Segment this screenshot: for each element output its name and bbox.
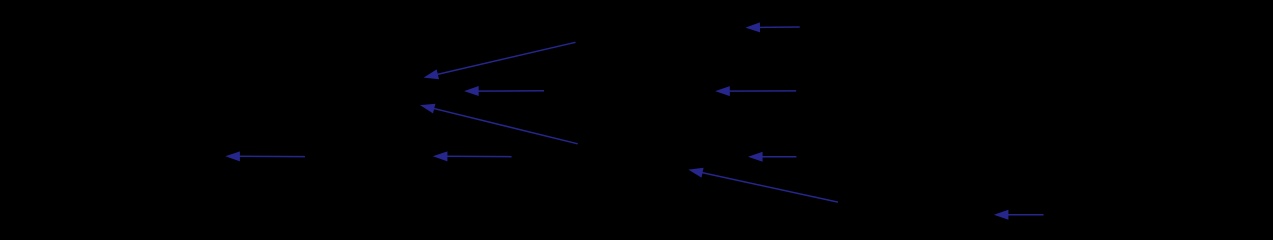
arrow A9 — [688, 168, 838, 202]
arrow A1 — [745, 22, 799, 32]
arrow A8 — [433, 151, 512, 161]
arrow A10 — [994, 210, 1044, 220]
arrow A5 — [420, 104, 578, 144]
arrow A2 — [424, 42, 576, 79]
arrow A3 — [464, 86, 544, 96]
arrow A4 — [715, 86, 796, 96]
arrow A7 — [225, 151, 305, 161]
arrow A6 — [748, 152, 796, 162]
